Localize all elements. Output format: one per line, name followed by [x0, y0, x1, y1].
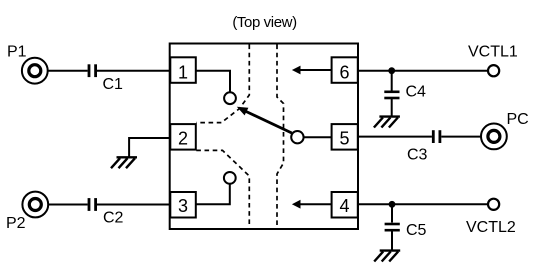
- capacitor C1: [89, 64, 96, 77]
- wire C5 to ground: [391, 231, 393, 250]
- switch contact S5: [291, 131, 303, 143]
- port P2 connector: [22, 192, 48, 218]
- svg-text:1: 1: [178, 63, 188, 83]
- control arrow from pin 6: [292, 66, 332, 75]
- svg-text:P2: P2: [6, 215, 26, 232]
- svg-text:3: 3: [178, 196, 188, 216]
- dashed isolation channel left lower: [196, 150, 249, 227]
- wire pin 4 to VCTL2: [358, 203, 488, 205]
- pin box 3: [170, 192, 196, 218]
- ground at C5: [374, 251, 400, 262]
- wire P1 to C1: [47, 70, 87, 72]
- wire node to C4: [391, 71, 393, 91]
- wire C3 to PC: [441, 136, 481, 138]
- switch contact S1: [224, 92, 236, 104]
- wire pin 3 to contact S3: [196, 184, 230, 204]
- port PC connector: [481, 123, 507, 149]
- svg-text:C3: C3: [407, 147, 428, 164]
- wire pin 2 to ground: [129, 138, 170, 157]
- svg-text:VCTL2: VCTL2: [466, 219, 516, 236]
- junction node at C4: [388, 67, 395, 74]
- svg-text:C1: C1: [103, 76, 124, 93]
- wire pin 5 to contact S5: [304, 136, 332, 138]
- svg-text:PC: PC: [507, 111, 529, 128]
- pin box 2: [170, 124, 196, 150]
- ground at C4: [374, 117, 400, 128]
- svg-text:(Top view): (Top view): [232, 14, 297, 31]
- svg-text:5: 5: [339, 129, 349, 149]
- capacitor C3: [433, 130, 440, 143]
- wire pin 5 to C3: [358, 136, 432, 138]
- pin box 4: [332, 192, 358, 218]
- pin box 5: [332, 124, 358, 150]
- wire C4 to ground: [391, 99, 393, 116]
- svg-text:C2: C2: [103, 210, 124, 227]
- svg-text:4: 4: [339, 196, 349, 216]
- svg-text:C5: C5: [406, 222, 427, 239]
- svg-text:VCTL1: VCTL1: [468, 43, 518, 60]
- dashed isolation channel right: [277, 45, 284, 228]
- junction node at C5: [389, 201, 396, 208]
- dashed isolation channel left upper: [196, 45, 249, 123]
- control arrow from pin 4: [292, 200, 332, 209]
- wire pin 1 to contact S1: [196, 71, 230, 93]
- pin box 6: [332, 57, 358, 83]
- switch arm with arrowhead: [237, 107, 292, 133]
- wire C2 to pin 3: [97, 204, 170, 206]
- IC package outline U1: [170, 44, 358, 230]
- capacitor C4: [384, 92, 399, 98]
- wire pin 6 to VCTL1: [358, 70, 488, 72]
- capacitor C5: [385, 224, 400, 230]
- svg-text:2: 2: [178, 129, 188, 149]
- switch contact S3: [224, 172, 236, 184]
- port P1 connector: [22, 58, 48, 84]
- svg-text:6: 6: [339, 63, 349, 83]
- terminal VCTL1: [488, 65, 499, 76]
- wire node to C5: [391, 204, 393, 222]
- terminal VCTL2: [488, 199, 499, 210]
- capacitor C2: [89, 198, 96, 211]
- wire P2 to C2: [48, 204, 88, 206]
- svg-text:C4: C4: [406, 84, 427, 101]
- svg-text:P1: P1: [7, 44, 27, 61]
- ground at pin 2: [111, 157, 137, 168]
- wire C1 to pin 1: [97, 70, 170, 72]
- pin box 1: [170, 57, 196, 83]
